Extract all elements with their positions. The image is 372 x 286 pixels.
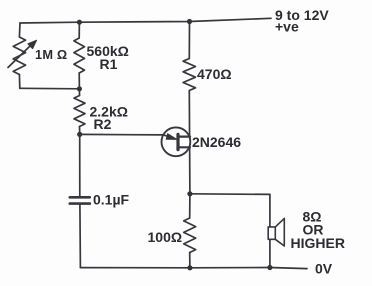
potentiometer VR1 1M zigzag bbox=[13, 37, 25, 75]
wire R2 top lead bbox=[78, 89, 80, 96]
transistor Q1 2N2646 circle bbox=[162, 127, 191, 156]
capacitor C1 0.1uF bottom plate bbox=[70, 202, 90, 205]
wire speaker branch horizontal bbox=[190, 193, 270, 196]
wire pot bottom vertical bbox=[18, 75, 20, 89]
junction dot bottom rail 100 bbox=[187, 265, 192, 270]
wire base2 vertical through transistor bbox=[188, 91, 191, 194]
junction dot top rail R1 bbox=[77, 20, 82, 25]
svg-text:470Ω: 470Ω bbox=[197, 66, 232, 82]
svg-text:R2: R2 bbox=[94, 116, 112, 132]
junction dot R2 bottom node bbox=[77, 132, 82, 137]
transistor base1 stub bbox=[178, 146, 190, 148]
wire speaker bottom lead bbox=[269, 239, 271, 267]
svg-text:R1: R1 bbox=[100, 56, 118, 72]
wire base1 to 100 ohm lead bbox=[189, 194, 191, 218]
svg-text:1M Ω: 1M Ω bbox=[35, 47, 67, 62]
potentiometer arrowhead bbox=[28, 40, 37, 49]
capacitor C1 0.1uF top plate bbox=[70, 196, 90, 199]
wire 100 ohm bottom lead bbox=[189, 253, 191, 268]
svg-text:+ve: +ve bbox=[275, 19, 299, 35]
resistor R2 2.2k zigzag bbox=[74, 96, 85, 127]
junction dot bottom rail speaker bbox=[267, 265, 272, 270]
wire capacitor bottom lead bbox=[79, 205, 82, 268]
junction dot pot bottom / R1-R2 bbox=[77, 86, 82, 91]
transistor emitter arrowhead bbox=[166, 134, 177, 140]
resistor 100 zigzag bbox=[184, 218, 196, 253]
svg-text:100Ω: 100Ω bbox=[148, 229, 183, 245]
wire speaker top lead bbox=[269, 194, 271, 227]
svg-text:2N2646: 2N2646 bbox=[192, 134, 241, 150]
wire R1 bottom lead bbox=[78, 73, 80, 89]
resistor 470 zigzag bbox=[183, 59, 195, 91]
wire R2 bottom lead bbox=[79, 127, 81, 135]
speaker driver rectangle bbox=[268, 227, 275, 239]
junction dot base1 node bbox=[187, 191, 192, 196]
potentiometer arrow bbox=[8, 46, 31, 68]
svg-text:0.1µF: 0.1µF bbox=[93, 192, 130, 208]
svg-text:HIGHER: HIGHER bbox=[291, 235, 345, 251]
speaker cone bbox=[275, 218, 284, 246]
wire emitter horizontal bbox=[80, 133, 166, 136]
transistor base2 stub bbox=[178, 136, 190, 138]
wire capacitor top lead bbox=[79, 134, 81, 196]
wire 470 top lead bbox=[188, 22, 190, 59]
resistor R1 560k zigzag bbox=[74, 38, 85, 73]
junction dot top rail 470 bbox=[187, 19, 192, 24]
wire R1 top lead bbox=[78, 22, 80, 38]
wire bottom 0V rail bbox=[80, 268, 307, 269]
svg-text:0V: 0V bbox=[315, 261, 333, 277]
wire pot top vertical bbox=[18, 23, 21, 37]
transistor emitter line bbox=[163, 135, 171, 137]
transistor base bar bbox=[176, 134, 179, 149]
wire top +V rail bbox=[20, 18, 271, 23]
wire pot bottom horizontal bbox=[20, 87, 80, 90]
